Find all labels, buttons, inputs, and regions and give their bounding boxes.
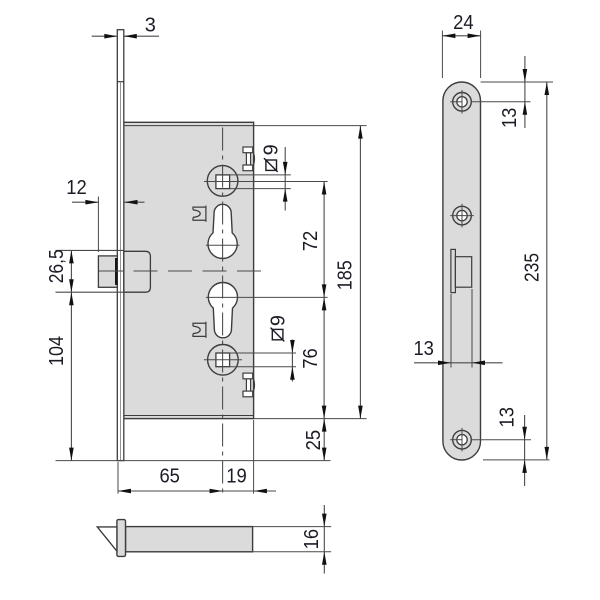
svg-text:16: 16 [301,529,323,550]
svg-text:19: 19 [226,466,247,488]
svg-text:65: 65 [159,466,180,488]
svg-text:104: 104 [46,336,68,366]
svg-text:72: 72 [300,231,322,252]
svg-text:3: 3 [145,14,156,36]
svg-text:13: 13 [499,108,521,129]
svg-text:185: 185 [335,260,357,290]
svg-text:13: 13 [413,338,434,360]
svg-text:13: 13 [497,407,519,428]
svg-text:24: 24 [453,12,474,34]
svg-text:12: 12 [66,177,87,199]
svg-text:25: 25 [303,430,325,451]
svg-text:9: 9 [260,144,282,155]
svg-text:235: 235 [522,253,544,282]
svg-text:9: 9 [267,315,289,326]
svg-text:26,5: 26,5 [46,249,68,283]
svg-text:76: 76 [300,348,322,369]
